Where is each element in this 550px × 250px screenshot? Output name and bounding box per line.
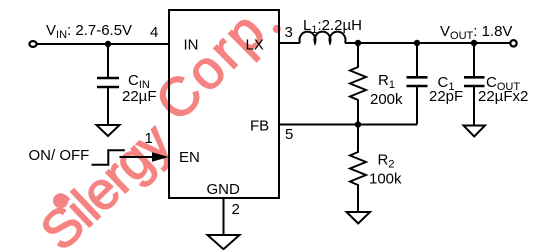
capacitor C1 <box>407 77 428 86</box>
svg-text:GND: GND <box>207 181 241 198</box>
wire EN step waveform <box>92 150 125 165</box>
ground GND <box>208 235 240 249</box>
resistor R2 <box>350 125 366 213</box>
svg-text:2: 2 <box>232 201 240 218</box>
svg-text:VIN: 2.7-6.5V: VIN: 2.7-6.5V <box>46 22 132 41</box>
inductor L1 <box>299 32 345 43</box>
arrowhead EN <box>152 152 169 162</box>
wire FB <box>279 124 417 126</box>
junction node LX-R1 <box>355 40 361 46</box>
IC U1 body (regulator, pins IN/LX/EN/FB/GND) <box>169 10 279 198</box>
watermark i-dot <box>54 194 68 208</box>
svg-text:200k: 200k <box>370 91 403 108</box>
svg-text:3: 3 <box>285 24 293 41</box>
wire COUT vertical <box>473 43 475 126</box>
svg-text:22µF: 22µF <box>122 88 157 105</box>
terminal VOUT <box>510 40 516 46</box>
ground R2 <box>347 212 371 224</box>
junction node C1 top <box>414 40 420 46</box>
svg-text:L1:2.2µH: L1:2.2µH <box>303 17 362 36</box>
svg-text:Corp: Corp <box>144 0 278 133</box>
svg-text:ON/ OFF: ON/ OFF <box>29 147 90 164</box>
watermark Silergy Corp. <box>30 0 281 250</box>
wire input rail <box>37 43 170 45</box>
svg-text:FB: FB <box>250 118 269 135</box>
wire LX <box>279 42 300 44</box>
svg-text:1: 1 <box>145 130 153 147</box>
wire C1 vertical <box>416 43 418 125</box>
wire CIN vertical <box>107 44 109 125</box>
terminal VIN <box>29 41 36 47</box>
capacitor COUT <box>464 77 485 86</box>
svg-text:EN: EN <box>179 149 200 166</box>
svg-text:22µFx2: 22µFx2 <box>478 88 528 105</box>
ground COUT <box>464 126 486 137</box>
junction node FB <box>355 121 361 127</box>
svg-text:VOUT: 1.8V: VOUT: 1.8V <box>440 23 512 42</box>
junction node VIN-CIN <box>105 41 111 47</box>
wire GND pin <box>223 198 225 235</box>
svg-text:22pF: 22pF <box>429 88 463 105</box>
svg-text:IN: IN <box>184 37 199 54</box>
wire EN arrow line <box>120 156 154 158</box>
svg-text:4: 4 <box>150 24 158 41</box>
wire output rail <box>345 42 510 44</box>
svg-text:5: 5 <box>285 126 293 143</box>
svg-text:100k: 100k <box>369 171 402 188</box>
svg-text:Silergy: Silergy <box>30 112 183 250</box>
svg-text:LX: LX <box>246 37 264 54</box>
watermark period <box>273 26 280 33</box>
capacitor CIN <box>97 78 119 87</box>
ground CIN <box>97 125 120 136</box>
junction node COUT top <box>471 40 477 46</box>
resistor R1 <box>350 43 366 125</box>
svg-text:R1: R1 <box>378 72 395 91</box>
svg-text:R2: R2 <box>378 152 395 171</box>
